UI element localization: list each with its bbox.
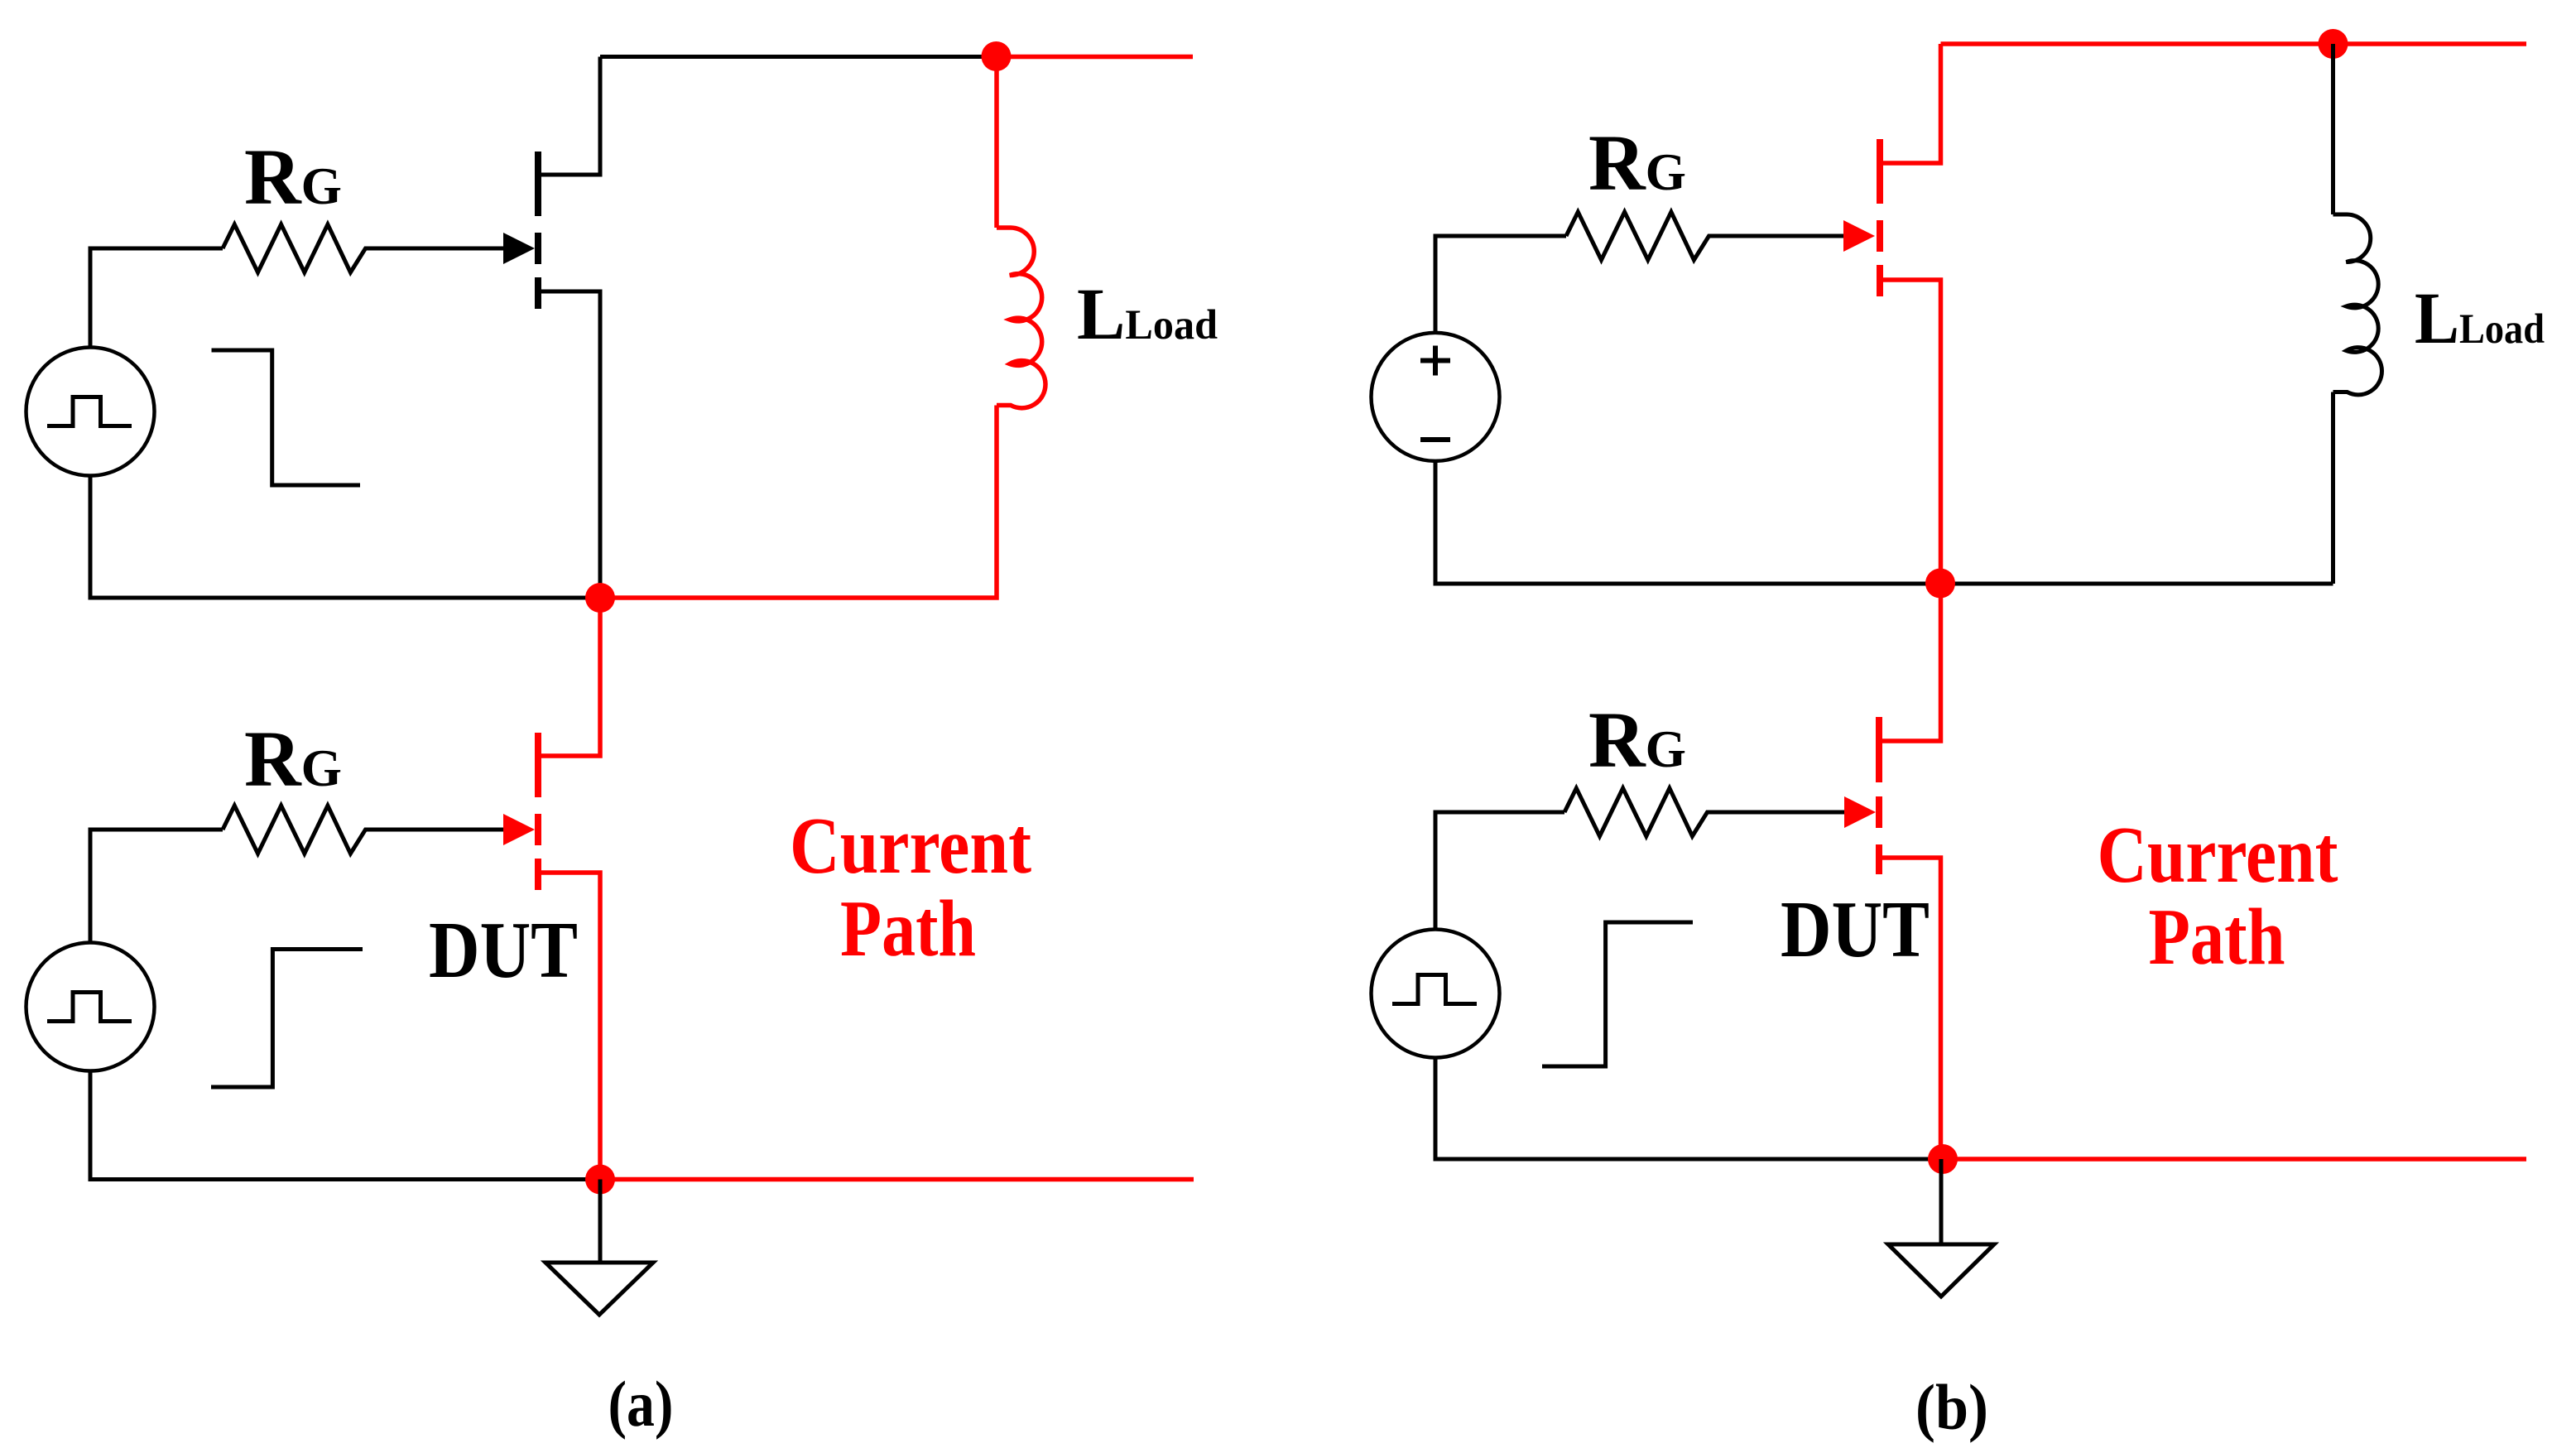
falling-step waveform symbol (panel a top) [212,350,361,485]
ground symbol (panel a) [598,1180,603,1263]
DUT drain wire (panel a, red) [538,598,600,756]
wire V2 minus down to bottom rail (panel b) [1435,1058,1943,1160]
node dot top (panel a) [982,41,1012,71]
svg-text:DUT: DUT [429,906,578,994]
DUT channel dashes (panel b, red) [1876,717,1882,874]
inductor LLoad (panel a, red) [997,228,1045,408]
transistor Q1 source stub (panel b top, red) [1880,280,1941,583]
gate arrow of Q1 (panel b top, red) [1843,220,1875,252]
svg-text:(b): (b) [1915,1371,1988,1443]
svg-text:Current: Current [790,801,1031,890]
transistor Q1 drain stub (panel a top) [538,57,600,176]
wire V2 plus to resistor (panel a bottom) [90,830,223,943]
top rail red (panel b) [1941,41,2527,46]
resistor RG (panel a top) [223,224,503,272]
node dot bottom (panel b) [1928,1144,1958,1174]
svg-text:(a): (a) [608,1368,674,1440]
transistor Q1 source stub (panel a top) [538,291,600,598]
resistor RG (panel b top) [1566,212,1843,260]
pulse source V1 (top gate driver, panel a) [26,348,155,476]
gate arrow of Q1 (panel a top) [503,233,535,264]
resistor RG (panel b bottom) [1564,788,1844,836]
node dot top (panel b) [2319,29,2348,59]
wire V1 plus to resistor (panel a top) [90,248,223,348]
wire dot to inductor top (panel b) [2331,44,2335,214]
top rail red segment (panel a) [997,55,1194,60]
pulse source V2 (DUT gate driver, panel a) [26,943,155,1071]
wire VDC plus to resistor (panel b top) [1435,236,1566,333]
DUT channel dashes (panel a, red) [535,733,541,890]
svg-text:DUT: DUT [1781,885,1930,974]
pulse source V2 (DUT gate driver, panel b) [1372,930,1500,1058]
rising-step waveform symbol (panel b bottom) [1542,922,1693,1066]
ground symbol (panel b) [1939,1159,1944,1244]
DUT drain wire (panel b, red) [1879,583,1941,741]
svg-text:Path: Path [2149,892,2285,981]
node dot mid (panel b) [1925,569,1955,599]
wire inductor bottom to mid rail (panel a, red) [600,406,997,599]
inductor LLoad (panel b) [2333,214,2382,395]
wire V1 minus down to mid rail (panel a) [90,476,600,599]
wire V2 minus down to bottom rail (panel a) [90,1071,600,1180]
DUT gate arrow (panel a, red) [503,814,535,845]
rising-step waveform symbol (panel a bottom) [211,950,363,1088]
DUT gate arrow (panel b, red) [1844,796,1876,828]
transistor Q1 channel dashes (panel a top) [535,152,541,309]
node dot mid (panel a) [585,583,615,613]
wire V2 plus to resistor (panel b bottom) [1435,812,1564,930]
DUT source stub (panel b, red) [1879,858,1941,1159]
wire dot to inductor top (panel a, red) [994,57,999,229]
bottom rail red segment (panel a) [600,1177,1194,1182]
wire inductor bottom to mid rail (panel b) [2331,392,2335,584]
DC source VDC (panel b top) [1372,333,1500,461]
top rail black segment (panel a) [600,55,997,59]
bottom rail red segment (panel b) [1943,1157,2526,1162]
svg-text:Path: Path [840,884,976,973]
DUT source stub (panel a, red) [538,873,600,1180]
transistor Q1 drain stub (panel b top, red) [1880,44,1941,163]
node dot bottom (panel a) [585,1165,615,1195]
svg-text:Current: Current [2098,811,2338,899]
wire VDC minus down to mid rail (panel b) [1435,461,2333,584]
resistor RG (panel a bottom) [223,806,503,854]
transistor Q1 channel dashes (panel b top, red) [1877,139,1883,296]
